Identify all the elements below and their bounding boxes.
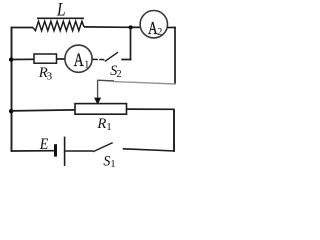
node junction dot middle-left <box>9 57 13 61</box>
switch S1 blade <box>93 143 113 152</box>
wire rheostat wiper horizontal <box>98 79 114 82</box>
svg-text:2: 2 <box>116 69 121 80</box>
node junction dot top <box>129 25 133 29</box>
svg-text:2: 2 <box>157 27 162 38</box>
rheostat wiper arrow stem <box>97 80 99 99</box>
node junction dot lower-left <box>9 109 13 113</box>
svg-text:1: 1 <box>110 159 115 170</box>
svg-text:1: 1 <box>84 58 90 70</box>
svg-text:R: R <box>96 116 106 132</box>
wire S1 right to corner <box>123 149 175 151</box>
inductor L zigzag <box>33 21 84 30</box>
svg-text:L: L <box>56 0 65 20</box>
wire bottom left <box>11 150 55 152</box>
rheostat R1 <box>75 104 127 115</box>
resistor R3 <box>34 54 57 63</box>
ammeter A1 <box>65 45 92 72</box>
svg-text:3: 3 <box>47 71 53 83</box>
wire R3 to A1 <box>57 58 66 60</box>
wire left vertical <box>11 27 13 152</box>
wire battery to S1 <box>65 150 93 152</box>
svg-text:E: E <box>39 136 49 153</box>
battery E short thick plate <box>54 144 57 156</box>
wire middle row left <box>12 58 35 60</box>
wire A2 right <box>168 27 176 29</box>
battery E long thin plate <box>64 137 66 166</box>
wire A1 to S2 <box>92 58 104 60</box>
switch S2 right stub <box>121 59 131 61</box>
ammeter A2 <box>140 11 167 38</box>
wire right upper vertical <box>174 27 176 85</box>
wire R1 row left <box>12 110 76 111</box>
wire R1 row right <box>127 108 175 110</box>
inductor L core bar <box>37 17 84 19</box>
svg-text:1: 1 <box>106 121 112 133</box>
wire top-left horizontal <box>11 27 33 29</box>
wire top middle <box>84 26 141 29</box>
switch S2 blade <box>105 52 118 61</box>
wire right lower vertical <box>173 109 175 152</box>
wire S2 riser to top node <box>130 27 132 60</box>
rheostat wiper arrowhead <box>94 98 101 105</box>
svg-text:A: A <box>74 50 84 71</box>
